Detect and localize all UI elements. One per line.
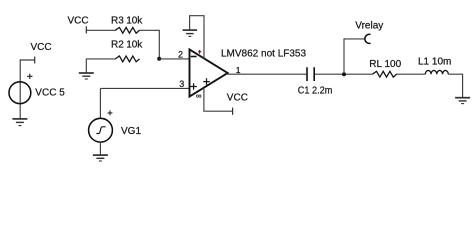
resistor R2 — [115, 56, 139, 62]
wire C1 to RL — [315, 73, 372, 75]
plus sign output polarity — [203, 78, 210, 85]
voltage generator VG1 circle — [89, 118, 113, 142]
resistor RL — [372, 71, 396, 77]
svg-text:VG1: VG1 — [121, 126, 141, 137]
wire R3 right lead to node — [139, 30, 159, 58]
junction node at inverting input — [157, 57, 161, 61]
svg-text:10k: 10k — [126, 16, 143, 27]
wire R2 left to ground stub — [85, 59, 87, 73]
net tick VCC at op-amp — [232, 108, 234, 115]
wire VG1 top lead — [99, 88, 101, 118]
resistor R3 — [115, 27, 139, 33]
ground below VG1 — [93, 155, 108, 161]
plus sign VS1 — [27, 74, 32, 79]
svg-text:VCC: VCC — [31, 42, 52, 53]
svg-text:Vrelay: Vrelay — [355, 21, 383, 32]
svg-text:2: 2 — [178, 49, 183, 59]
ground at L1 — [455, 98, 470, 104]
plus sign at non-inverting input — [190, 83, 196, 89]
wire VS1 through to ground — [19, 81, 21, 118]
wire node to pin 2 — [159, 58, 190, 60]
ground at R2 — [79, 73, 94, 79]
svg-text:L1 10m: L1 10m — [418, 57, 451, 68]
ground at op-amp supply — [183, 30, 198, 36]
wire output to C1 — [228, 73, 307, 75]
svg-text:C1 2.2m: C1 2.2m — [298, 86, 333, 97]
svg-text:LMV862 not LF353: LMV862 not LF353 — [221, 48, 306, 59]
wire RL to L1 — [396, 73, 425, 75]
wire R3 left lead — [86, 29, 115, 31]
voltage source VS1 circle — [9, 82, 31, 104]
svg-text:R3: R3 — [111, 16, 124, 27]
wire Vrelay probe — [344, 39, 365, 74]
net tick VCC at R3 — [85, 26, 87, 33]
svg-text:R2: R2 — [111, 40, 124, 51]
svg-text:VCC 5: VCC 5 — [35, 87, 65, 98]
wire VG1 bottom lead — [99, 142, 101, 155]
svg-text:RL 100: RL 100 — [369, 59, 401, 70]
voltage pin hook Vrelay — [365, 34, 371, 43]
capacitor C1 — [307, 67, 314, 81]
svg-text:10k: 10k — [126, 40, 143, 51]
sine symbol in VG1 — [96, 127, 105, 134]
wire VS1 top to VCC tick — [20, 60, 35, 81]
wire VG1 to pin 3 — [100, 87, 189, 89]
supply arrow marker — [199, 51, 201, 54]
net tick VCC at VS1 — [34, 57, 36, 64]
svg-text:3: 3 — [179, 79, 184, 89]
op-amp U1 triangle — [190, 49, 228, 96]
svg-text:VCC: VCC — [227, 92, 248, 103]
svg-text:∞: ∞ — [196, 92, 202, 101]
wire R2 left lead — [86, 58, 115, 60]
wire L1 to ground — [448, 74, 462, 97]
ground below VS1 — [12, 119, 27, 126]
wire op-amp positive supply to ground — [190, 16, 204, 59]
inductor L1 — [425, 70, 448, 74]
svg-text:VCC: VCC — [68, 16, 89, 27]
minus sign at inverting input — [191, 56, 197, 58]
plus sign VG1 — [108, 111, 113, 116]
wire op-amp negative supply to VCC — [204, 88, 233, 112]
junction node at Vrelay — [342, 72, 346, 76]
